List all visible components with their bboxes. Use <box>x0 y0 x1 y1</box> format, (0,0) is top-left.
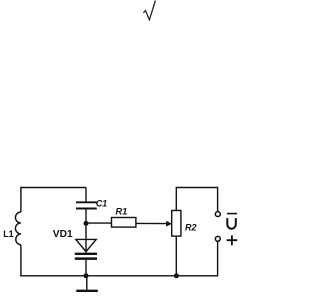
potentiometer R2 <box>172 211 181 237</box>
wire left vertical upper <box>20 187 22 212</box>
wire R2 bottom branch <box>175 236 177 276</box>
terminal bottom (plus) <box>215 236 220 241</box>
svg-text:R2: R2 <box>185 223 197 233</box>
wire node to R1 <box>86 222 112 224</box>
wire C1 branch upper <box>85 188 87 202</box>
label minus polarity <box>227 213 237 215</box>
capacitor C1 bottom plate <box>76 208 97 210</box>
wire R1 to R2 wiper <box>136 222 167 224</box>
terminal top (minus) <box>215 212 220 217</box>
capacitor C1 top plate <box>76 201 97 203</box>
inductor L1 <box>15 212 20 245</box>
resistor R1 <box>112 218 136 228</box>
svg-text:VD1: VD1 <box>53 229 73 240</box>
svg-text:R1: R1 <box>116 207 128 217</box>
node junction dot C1/R1/VD1 <box>84 221 89 226</box>
wire top-left horizontal <box>21 187 86 189</box>
svg-text:C1: C1 <box>96 198 107 208</box>
junction dot R2/bottom wire <box>174 273 179 278</box>
label plus polarity <box>227 235 238 245</box>
wire bottom horizontal <box>20 275 217 277</box>
wire bottom terminal to bottom wire <box>217 242 219 277</box>
wire VD1 to bottom wire <box>85 260 87 276</box>
wire C1 to node and through VD1 triangle <box>85 209 87 252</box>
svg-text:L1: L1 <box>3 229 14 239</box>
wiper arrowhead into R2 <box>166 221 171 226</box>
ground bar <box>76 290 98 292</box>
varicap cathode bar <box>75 253 97 255</box>
ground stub <box>86 276 88 290</box>
varicap diode VD1 triangle <box>76 239 96 251</box>
junction dot VD1/bottom wire <box>84 273 89 278</box>
label U output voltage <box>227 218 236 229</box>
checkmark <box>143 1 155 20</box>
wire R2 top branch <box>176 188 217 212</box>
varicap capacitor bar <box>75 257 97 260</box>
wire left vertical lower <box>20 245 22 276</box>
